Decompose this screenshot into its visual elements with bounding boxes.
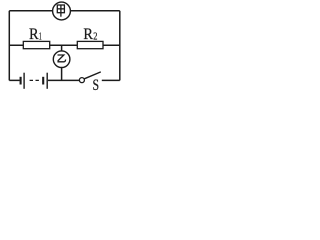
svg-text:S: S: [93, 77, 100, 93]
svg-text:1: 1: [39, 31, 42, 42]
svg-text:R: R: [29, 24, 39, 43]
svg-text:2: 2: [93, 32, 97, 43]
svg-text:R: R: [83, 24, 93, 43]
